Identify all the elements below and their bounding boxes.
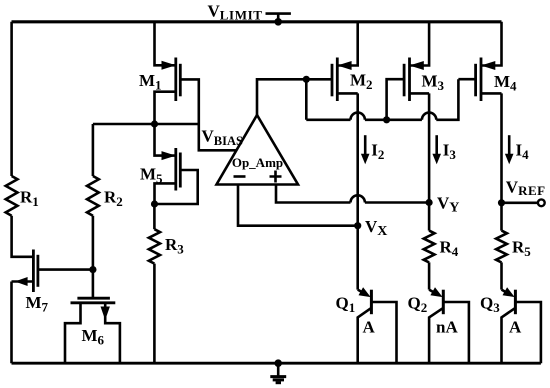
wire VBIAS to op-amp [199,124,237,150]
svg-text:I4: I4 [516,141,530,163]
wire node to R2 top [92,124,95,176]
node dot bus M3 gate [383,116,390,123]
current arrow I2 [361,135,370,164]
resistor R4 [424,231,435,263]
op-amp U1 triangle [217,115,299,185]
svg-text:I3: I3 [443,141,457,163]
terminal VREF open circle [538,199,545,206]
node VX dot [354,222,361,229]
wire M2 gate from output node [306,78,332,81]
svg-text:VBIAS: VBIAS [202,127,244,149]
node dot VREF [498,199,505,206]
node dot op-amp output [303,76,310,83]
wire op-amp minus input to VX [238,185,358,226]
wire hop over I3 [422,113,436,120]
svg-text:VY: VY [437,194,459,216]
transistor M7 [12,250,38,293]
svg-text:nA: nA [436,318,458,337]
svg-text:I2: I2 [371,141,384,163]
transistor M1 [155,58,199,125]
transistor M3 [404,22,429,101]
svg-text:M2: M2 [350,71,373,93]
wire R5 bottom to Q3 [500,262,503,289]
resistor R2 [87,176,99,216]
svg-text:R4: R4 [440,238,459,260]
current arrow I3 [432,135,441,164]
transistor Q1 [358,287,397,363]
wire M3 drain down to VY and R4 [428,93,431,230]
wire R1 bottom to M7 drain [12,216,34,257]
node dot VLIMIT on rail [274,18,282,26]
wire M3 gate tap [387,79,405,120]
wire op-amp plus input to VY with hop [276,185,429,203]
svg-text:R2: R2 [104,188,123,210]
svg-text:M4: M4 [494,72,517,94]
svg-text:Q1: Q1 [336,294,356,316]
current arrow I4 [505,135,514,164]
wire R3 bottom to ground rail [153,264,156,364]
wire M1 node horizontal [93,123,199,126]
svg-text:R5: R5 [512,238,531,260]
wire M2 drain down through hops to Q1 [356,93,359,289]
transistor Q2 [429,287,469,363]
transistor M4 [476,22,502,101]
op-amp output wire to M2 gate node [257,79,306,115]
svg-text:A: A [363,318,376,337]
wire M4 drain down to VREF and R5 [500,93,503,230]
wire VREF to terminal [502,202,539,205]
transistor M5 [155,148,198,204]
svg-text:R3: R3 [165,235,184,257]
transistor Q3 [502,287,541,363]
wire M1 source feed from rail [155,22,176,66]
svg-text:Op_Amp: Op_Amp [232,155,283,170]
node dot M1 drain node [151,120,158,127]
wire top VLIMIT rail [12,20,502,23]
resistor R1 [6,176,18,216]
svg-text:M7: M7 [26,293,49,315]
resistor R3 [149,229,160,263]
transistor M6 [65,298,120,363]
VLIMIT terminal stub [277,14,280,22]
wire M5 source from node [155,124,176,156]
svg-text:VX: VX [365,217,387,239]
wire left vertical from rail to R1 [10,22,13,176]
resistor R5 [496,231,507,263]
VLIMIT terminal bar [266,12,291,15]
wire M4 gate [458,78,475,81]
svg-text:Q2: Q2 [408,294,428,316]
wire hop over I2 line [351,195,365,202]
svg-text:A: A [509,318,522,337]
wire hop over I2 [351,113,365,120]
node VY dot [426,199,433,206]
svg-text:M6: M6 [82,326,105,348]
svg-text:VREF: VREF [506,177,546,198]
wire R2 bottom to M6 gate [92,216,95,298]
transistor M2 [332,22,358,101]
wire node to R3 [153,204,156,229]
wire bottom ground rail [12,362,541,365]
wire M7 source down to ground rail [10,282,13,364]
svg-text:VLIMIT: VLIMIT [208,2,263,23]
ground symbol [270,363,286,383]
op-amp minus sign [234,175,246,178]
node dot M5 drain node [151,200,158,207]
node dot ground on rail [274,359,282,367]
wire R4 bottom to Q2 [428,262,431,289]
svg-text:R1: R1 [20,188,39,210]
svg-text:M3: M3 [422,72,445,94]
svg-text:Q3: Q3 [480,294,500,316]
svg-text:M1: M1 [139,71,162,93]
op-amp plus sign [270,171,282,183]
node dot R2/M7/M6 junction [89,266,96,273]
wire gate bus with hops [306,79,458,120]
wire M7 gate to R2 node [38,268,93,271]
svg-text:M5: M5 [140,165,163,187]
